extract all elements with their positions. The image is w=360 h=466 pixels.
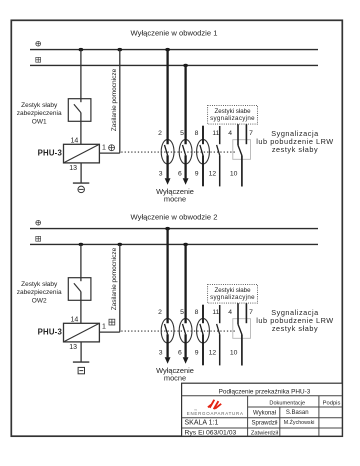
label Sygnalizacja lub pobudzenie LRW zestyk słaby xyxy=(256,308,334,333)
svg-text:zestyk słaby: zestyk słaby xyxy=(272,145,318,154)
pin label 4 xyxy=(228,130,232,137)
circuit 2 title: Wyłączenie w obwodzie 2 xyxy=(131,212,218,221)
power symbol circle-plus of bus P2A xyxy=(36,220,41,225)
pin label 2 xyxy=(158,130,162,137)
svg-text:4: 4 xyxy=(228,130,232,137)
terminal marker at pin 1 xyxy=(109,319,115,325)
pin label 12 xyxy=(209,349,217,356)
wire OW1 to relay pin 14 xyxy=(80,113,82,145)
power symbol square-plus of bus P1B xyxy=(36,57,41,62)
pin label 3 xyxy=(159,170,163,177)
svg-text:S.Basan: S.Basan xyxy=(286,410,309,416)
contact 8-9 (heavy-duty contact of relay PHU-3) xyxy=(197,126,210,187)
junction J5 (contact 2 on bus P2A) xyxy=(165,227,170,230)
svg-text:12: 12 xyxy=(209,170,217,177)
relay coil U1 PHU-3 xyxy=(64,144,100,163)
negative terminal bar xyxy=(73,182,89,184)
svg-text:7: 7 xyxy=(249,309,253,316)
pin label 14 xyxy=(71,137,79,144)
pin label 11 xyxy=(212,130,219,137)
svg-text:Wyłączenie w obwodzie 1: Wyłączenie w obwodzie 1 xyxy=(131,29,218,38)
svg-text:mocne: mocne xyxy=(164,194,186,203)
net bus P2A (positive bus, circle-plus) xyxy=(30,228,318,230)
title block: documentation header xyxy=(269,400,305,406)
svg-text:1: 1 xyxy=(102,324,106,331)
svg-text:Zestyk słaby: Zestyk słaby xyxy=(21,102,58,109)
svg-text:Zasilanie pomocnicze: Zasilanie pomocnicze xyxy=(111,247,118,310)
label Zasilanie pomocnicze (auxiliary supply) xyxy=(111,68,118,131)
wire bus to contact OW1 xyxy=(80,50,82,103)
logo wordmark ENERGOAPARATURA xyxy=(187,409,244,416)
contact OW1 (weak protection contact, boxed) xyxy=(68,99,91,122)
title block: Wykonał / S.Basan xyxy=(253,410,309,417)
pin label 10 xyxy=(230,170,238,177)
svg-text:1: 1 xyxy=(102,145,106,152)
mechanical linkage (dotted) from relay to contacts xyxy=(121,151,236,153)
wire bus to contact OW2 xyxy=(80,244,82,281)
trip arrow under contact 2-3 xyxy=(165,178,171,185)
pin label 7 xyxy=(249,130,253,137)
title block: drawing number Rys Ei 063/01/03 xyxy=(185,430,237,437)
svg-text:Zestyki słabe: Zestyki słabe xyxy=(214,287,251,294)
contact 11-12 (weak signalling contact) xyxy=(217,305,220,365)
label Wyłączenie mocne (strong tripping) xyxy=(156,187,194,203)
pin label 1 xyxy=(102,145,106,152)
svg-text:Zestyki słabe: Zestyki słabe xyxy=(214,108,251,115)
title block: scale xyxy=(185,420,219,427)
value label PHU-3 xyxy=(38,148,63,157)
contact 2-3 (heavy-duty contact of relay PHU-3) xyxy=(161,50,174,179)
svg-text:OW2: OW2 xyxy=(32,297,47,304)
changeover contact 4-10 / 7 (weak signalling changeover) xyxy=(238,124,246,186)
svg-text:8: 8 xyxy=(195,130,199,137)
negative pole symbol xyxy=(78,186,85,193)
mechanical linkage (dotted) from relay to contacts xyxy=(121,330,236,332)
svg-text:sygnalizacyjne: sygnalizacyjne xyxy=(210,115,255,122)
circuit 1 title: Wyłączenie w obwodzie 1 xyxy=(131,29,218,38)
svg-text:3: 3 xyxy=(159,349,163,356)
net bus P1A (positive bus, circle-plus) xyxy=(30,49,318,51)
svg-text:Wykonał: Wykonał xyxy=(253,410,277,416)
svg-text:zabezpieczenia: zabezpieczenia xyxy=(17,289,62,296)
svg-text:12: 12 xyxy=(209,349,217,356)
svg-text:sygnalizacyjne: sygnalizacyjne xyxy=(210,294,255,301)
pin label 10 xyxy=(230,349,238,356)
relay coil U2 PHU-3 xyxy=(64,323,100,342)
pin label 13 xyxy=(69,165,77,172)
svg-text:Zasilanie pomocnicze: Zasilanie pomocnicze xyxy=(111,68,118,131)
pin label 9 xyxy=(195,170,199,177)
pin label 8 xyxy=(195,130,199,137)
net bus P1B (square-plus) xyxy=(30,64,318,66)
negative pole symbol xyxy=(78,367,84,373)
svg-text:Dokumentacje: Dokumentacje xyxy=(269,400,305,406)
svg-text:Zatwierdził: Zatwierdził xyxy=(251,430,279,436)
svg-text:9: 9 xyxy=(195,349,199,356)
outline box of changeover contact xyxy=(233,319,251,339)
pin label 6 xyxy=(178,170,182,177)
title block: Sprawdził / M.Żychowski xyxy=(251,419,314,426)
title block: Zatwierdził xyxy=(251,430,279,436)
svg-text:6: 6 xyxy=(178,170,182,177)
trip arrow under contact 2-3 xyxy=(165,357,171,364)
terminal marker at pin 1 xyxy=(109,145,115,151)
svg-text:9: 9 xyxy=(195,170,199,177)
label Zasilanie pomocnicze (auxiliary supply) xyxy=(111,247,118,310)
svg-text:zestyk słaby: zestyk słaby xyxy=(272,324,318,333)
svg-text:SKALA 1:1: SKALA 1:1 xyxy=(185,420,219,427)
label Sygnalizacja lub pobudzenie LRW zestyk słaby xyxy=(256,129,334,154)
contact 2-3 (heavy-duty contact of relay PHU-3) xyxy=(161,229,174,358)
junction J6 (OW2 branch on bus P2B) xyxy=(79,243,84,246)
value label PHU-3 xyxy=(38,327,63,336)
svg-text:13: 13 xyxy=(69,165,77,172)
power symbol square-plus of bus P2B xyxy=(36,236,41,241)
svg-text:11: 11 xyxy=(212,309,219,316)
pin label 5 xyxy=(180,309,184,316)
junction J8 (contact 5 on bus P2B) xyxy=(183,243,188,246)
junction J4 (contact 5 on bus P1B) xyxy=(183,64,188,67)
svg-text:PHU-3: PHU-3 xyxy=(38,148,63,157)
contact 8-9 (heavy-duty contact of relay PHU-3) xyxy=(197,305,210,366)
contact OW2 (weak protection contact, boxed) xyxy=(68,278,91,301)
svg-text:13: 13 xyxy=(69,344,77,351)
changeover contact 4-10 / 7 (weak signalling changeover) xyxy=(238,303,246,365)
title block: drawing title xyxy=(219,388,311,395)
title block: signature header Podpis xyxy=(323,400,341,406)
svg-text:Wyłączenie w obwodzie 2: Wyłączenie w obwodzie 2 xyxy=(131,212,218,221)
trip arrow under contact 5-6 xyxy=(183,178,189,185)
junction J2 (aux supply on bus P1A) xyxy=(117,48,122,51)
pin label 4 xyxy=(228,309,232,316)
negative terminal bar xyxy=(73,361,89,363)
wire OW2 to relay pin 14 xyxy=(80,292,82,324)
pin label 1 xyxy=(102,324,106,331)
svg-text:3: 3 xyxy=(159,170,163,177)
contact 5-6 (heavy-duty contact of relay PHU-3) xyxy=(179,244,192,357)
pin label 11 xyxy=(212,309,219,316)
svg-text:10: 10 xyxy=(230,170,238,177)
title block frame xyxy=(182,383,343,436)
pin label 8 xyxy=(195,309,199,316)
svg-text:2: 2 xyxy=(158,309,162,316)
dashed box: Zestyki słabe sygnalizacyjne (weak signalling contacts) xyxy=(208,285,258,304)
contact 11-12 (weak signalling contact) xyxy=(217,126,220,186)
trip arrow under contact 5-6 xyxy=(183,357,189,364)
junction J3 (contact 2 on bus P1A) xyxy=(165,48,170,51)
contact 5-6 (heavy-duty contact of relay PHU-3) xyxy=(179,65,192,178)
svg-text:10: 10 xyxy=(230,349,238,356)
wire relay pin 13 to negative terminal xyxy=(80,342,82,362)
svg-text:4: 4 xyxy=(228,309,232,316)
svg-text:14: 14 xyxy=(71,137,79,144)
pin label 12 xyxy=(209,170,217,177)
svg-text:Podpis: Podpis xyxy=(323,400,341,406)
svg-text:™: ™ xyxy=(194,409,197,413)
svg-text:6: 6 xyxy=(178,349,182,356)
title block grid lines xyxy=(182,396,343,436)
svg-text:zabezpieczenia: zabezpieczenia xyxy=(17,110,62,117)
svg-text:PHU-3: PHU-3 xyxy=(38,327,63,336)
power symbol circle-plus of bus P1A xyxy=(36,41,41,46)
svg-text:5: 5 xyxy=(180,130,184,137)
svg-text:Podłączenie przekaźnika PHU-3: Podłączenie przekaźnika PHU-3 xyxy=(219,388,311,395)
wire relay pin 1 to auxiliary supply xyxy=(99,50,119,154)
junction J7 (aux supply on bus P2B) xyxy=(117,243,122,246)
svg-text:7: 7 xyxy=(249,130,253,137)
logo ENERGOAPARATURA (red mark) xyxy=(208,400,221,410)
pin label 3 xyxy=(159,349,163,356)
pin label 13 xyxy=(69,344,77,351)
pin label 9 xyxy=(195,349,199,356)
pin label 5 xyxy=(180,130,184,137)
label of contact OW1 xyxy=(17,102,62,126)
svg-text:8: 8 xyxy=(195,309,199,316)
svg-text:Zestyk słaby: Zestyk słaby xyxy=(21,281,58,288)
svg-text:5: 5 xyxy=(180,309,184,316)
outline box of changeover contact xyxy=(233,140,251,160)
pin label 7 xyxy=(249,309,253,316)
label Wyłączenie mocne (strong tripping) xyxy=(156,366,194,382)
pin label 14 xyxy=(71,316,79,323)
svg-text:14: 14 xyxy=(71,316,79,323)
svg-text:M.Żychowski: M.Żychowski xyxy=(284,419,315,426)
svg-text:Rys Ei 063/01/03: Rys Ei 063/01/03 xyxy=(185,430,237,437)
label of contact OW2 xyxy=(17,281,62,305)
net bus P2B (square-plus) xyxy=(30,243,318,245)
pin label 2 xyxy=(158,309,162,316)
svg-text:mocne: mocne xyxy=(164,373,186,382)
svg-text:Sprawdził: Sprawdził xyxy=(251,420,278,426)
junction J1 (OW1 branch on bus P1A) xyxy=(79,48,84,51)
svg-text:11: 11 xyxy=(212,130,219,137)
svg-text:OW1: OW1 xyxy=(32,118,47,125)
wire relay pin 13 to negative terminal xyxy=(80,163,82,183)
svg-text:2: 2 xyxy=(158,130,162,137)
wire relay pin 1 to auxiliary supply xyxy=(99,244,119,332)
pin label 6 xyxy=(178,349,182,356)
dashed box: Zestyki słabe sygnalizacyjne (weak signalling contacts) xyxy=(208,106,258,125)
